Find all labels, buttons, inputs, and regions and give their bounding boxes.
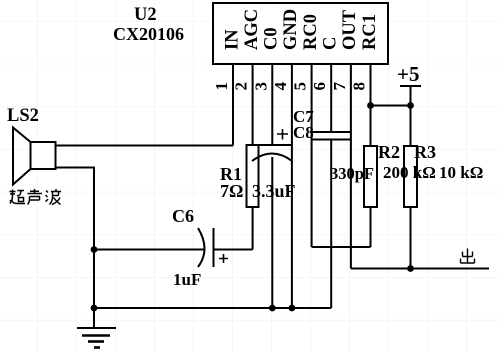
svg-text:IN: IN	[222, 29, 242, 50]
svg-text:C8: C8	[293, 123, 314, 142]
svg-text:OUT: OUT	[340, 9, 360, 50]
svg-text:5: 5	[291, 82, 310, 91]
svg-text:C6: C6	[172, 206, 194, 226]
svg-text:330pF: 330pF	[330, 164, 374, 183]
svg-text:3: 3	[251, 82, 270, 91]
svg-text:1: 1	[212, 82, 231, 91]
svg-text:C: C	[320, 37, 340, 50]
svg-text:10 kΩ: 10 kΩ	[439, 163, 483, 182]
svg-text:GND: GND	[281, 9, 301, 50]
svg-text:4: 4	[271, 82, 290, 91]
svg-text:AGC: AGC	[242, 9, 262, 50]
svg-text:7: 7	[330, 82, 349, 91]
svg-text:R3: R3	[414, 142, 436, 162]
svg-text:200 kΩ: 200 kΩ	[383, 163, 436, 182]
svg-text:8: 8	[350, 82, 369, 91]
svg-text:CX20106: CX20106	[113, 24, 184, 44]
svg-text:LS2: LS2	[7, 106, 39, 126]
svg-text:7Ω: 7Ω	[220, 181, 243, 201]
svg-text:U2: U2	[134, 5, 157, 25]
svg-text:C0: C0	[262, 27, 282, 50]
svg-text:3.3uF: 3.3uF	[252, 181, 296, 201]
svg-text:6: 6	[310, 82, 329, 91]
svg-text:RC1: RC1	[360, 14, 380, 50]
svg-text:2: 2	[232, 82, 251, 91]
svg-text:R2: R2	[378, 142, 400, 162]
svg-text:RC0: RC0	[301, 14, 321, 50]
svg-text:+5: +5	[397, 62, 419, 86]
svg-text:1uF: 1uF	[173, 270, 201, 289]
